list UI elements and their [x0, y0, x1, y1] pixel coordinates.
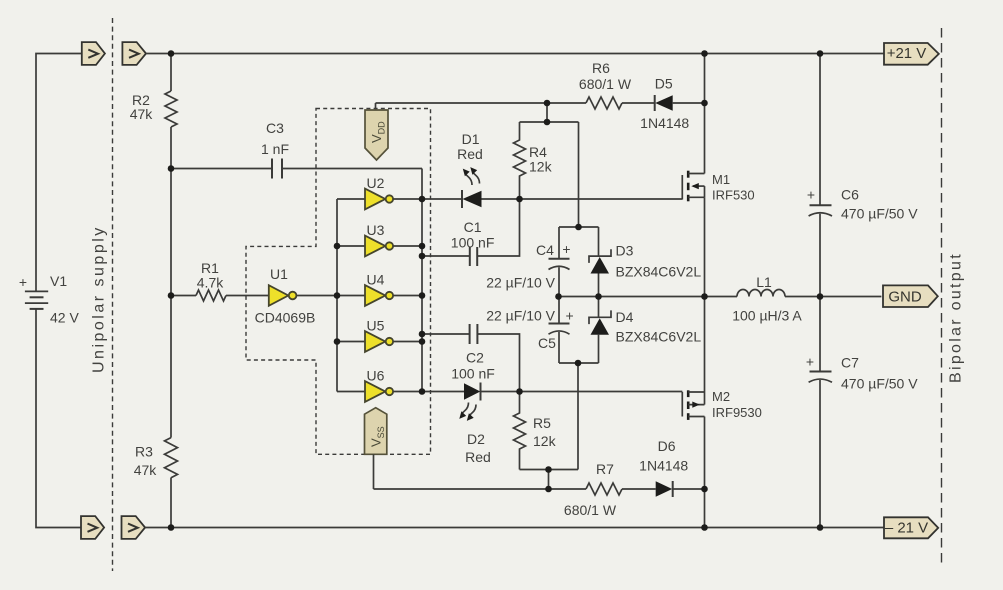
- capacitor C4 22 uF/10 V: [486, 227, 570, 297]
- wire R1 left lead from left rail: [171, 295, 196, 297]
- svg-text:12k: 12k: [529, 159, 553, 175]
- wire inverter input bus (U2-U6 inputs): [336, 199, 338, 392]
- inductor L1 100 uH/3 A: [732, 274, 802, 324]
- wire U2 output stub: [393, 198, 422, 200]
- node R4 top bar: [544, 119, 551, 126]
- svg-text:U1: U1: [270, 266, 288, 282]
- connector input negative (bottom left, unipolar side): [81, 516, 104, 539]
- capacitor C3 1 nF: [261, 120, 289, 179]
- capacitor C1 100 nF: [451, 219, 495, 266]
- inverter U2: [365, 175, 393, 209]
- svg-text:– 21 V: – 21 V: [885, 520, 928, 537]
- svg-text:+: +: [19, 274, 27, 290]
- LED D1 Red: [457, 131, 483, 208]
- svg-text:47k: 47k: [134, 462, 158, 478]
- wire R7 to D6: [622, 488, 656, 490]
- wire VDD rail stub to R4 bar: [546, 103, 548, 122]
- wire U3 output stub: [393, 245, 422, 247]
- node bottom rail / R3: [168, 524, 175, 531]
- battery V1 42 V: [19, 273, 80, 326]
- svg-text:U4: U4: [367, 272, 385, 288]
- svg-text:GND: GND: [888, 289, 922, 306]
- svg-text:C5: C5: [538, 335, 556, 351]
- inverter U4: [365, 272, 393, 306]
- wire D2 to R5 node: [481, 391, 520, 393]
- svg-text:U3: U3: [367, 222, 385, 238]
- inverter U5: [365, 318, 393, 352]
- node mid rail / C4-C5: [555, 293, 562, 300]
- wire R2 top lead: [170, 54, 172, 92]
- resistor R3 47k: [134, 438, 178, 478]
- label Bipolar output: [948, 252, 965, 383]
- svg-text:+: +: [807, 187, 815, 203]
- wire C2 right to D2 row node: [477, 334, 519, 392]
- svg-text:100 µH/3 A: 100 µH/3 A: [732, 308, 802, 324]
- svg-text:D1: D1: [462, 131, 480, 147]
- wire R5 bar stub to R7 row: [548, 470, 550, 490]
- resistor R6 680/1 W: [579, 60, 632, 109]
- node bottom rail / M2 drain: [701, 524, 708, 531]
- node bottom rail / C7: [817, 524, 824, 531]
- svg-text:+: +: [806, 354, 814, 370]
- wire C1 row from output bus: [422, 255, 470, 257]
- svg-text:22 µF/10 V: 22 µF/10 V: [486, 275, 555, 291]
- resistor R5 12k: [514, 392, 557, 470]
- wire bottom rail (-21 V net): [145, 527, 884, 529]
- node C2 row / output bus: [419, 331, 426, 338]
- node top rail / C6: [817, 50, 824, 57]
- node mid rail / M1-M2 source: [701, 293, 708, 300]
- svg-text:1N4148: 1N4148: [640, 115, 689, 131]
- svg-text:C1: C1: [464, 219, 482, 235]
- wire D1 to R4 node: [482, 198, 520, 200]
- svg-text:1 nF: 1 nF: [261, 141, 289, 157]
- node U3 input: [334, 243, 341, 250]
- node C5/D4 bottom: [575, 360, 582, 367]
- svg-text:R6: R6: [592, 60, 610, 76]
- svg-text:470 µF/50 V: 470 µF/50 V: [841, 206, 918, 222]
- wire C3 row left: [171, 168, 272, 170]
- wire left rail R1 node to R3: [170, 296, 172, 438]
- inverter U3: [365, 222, 393, 256]
- wire R7 row from VSS: [374, 488, 587, 490]
- svg-text:CD4069B: CD4069B: [255, 310, 316, 326]
- separator dashed line bipolar side: [941, 28, 943, 565]
- svg-text:U2: U2: [367, 175, 385, 191]
- wire unipolar supply positive (V1 plus to input connector): [36, 54, 82, 292]
- node U4 output: [419, 292, 426, 299]
- svg-text:IRF530: IRF530: [712, 188, 755, 203]
- svg-text:M1: M1: [712, 172, 730, 187]
- node C4/D3 top: [575, 224, 582, 231]
- wire U6 output stub: [393, 391, 422, 393]
- separator dashed line unipolar side: [112, 18, 114, 571]
- node VDD rail / D5 / M1 drain: [701, 100, 708, 107]
- connector input positive (top, circuit side): [122, 42, 146, 65]
- zener D3 BZX84C6V2L: [589, 227, 701, 297]
- node R5 bottom bar: [545, 466, 552, 473]
- connector input positive (top left, unipolar side): [82, 42, 105, 65]
- svg-text:100 nF: 100 nF: [451, 366, 495, 382]
- svg-text:+: +: [562, 241, 570, 257]
- wire U3 input stub: [337, 245, 365, 247]
- node left rail / R1: [168, 292, 175, 299]
- wire C1 right to R4 branch: [477, 199, 519, 256]
- svg-text:D6: D6: [658, 438, 676, 454]
- svg-text:BZX84C6V2L: BZX84C6V2L: [616, 264, 702, 280]
- svg-text:470 µF/50 V: 470 µF/50 V: [841, 376, 918, 392]
- svg-text:680/1 W: 680/1 W: [564, 502, 617, 518]
- inverter U1 CD4069B: [255, 266, 316, 326]
- wire VDD symbol to VDD rail: [375, 103, 377, 112]
- wire U1 output to inverter input bus: [297, 295, 366, 297]
- wire VDD rail: [376, 102, 587, 104]
- wire R5 bottom bar: [520, 469, 579, 471]
- wire R4 bar to C4/D3 top: [578, 122, 580, 227]
- resistor R2 47k: [130, 91, 177, 127]
- svg-text:C7: C7: [841, 355, 859, 371]
- wire inverter output bus: [421, 169, 423, 392]
- wire C5/D4 bottom to R5 bar: [577, 363, 579, 470]
- wire left rail C3 node to R1 node: [170, 169, 172, 296]
- wire R1 to U1 input: [226, 295, 269, 297]
- svg-text:42 V: 42 V: [50, 310, 79, 326]
- wire C3 row right to inverter output bus: [282, 168, 422, 170]
- svg-text:R5: R5: [533, 415, 551, 431]
- zener D4 BZX84C6V2L: [589, 297, 701, 364]
- svg-text:R3: R3: [135, 444, 153, 460]
- svg-text:D5: D5: [655, 76, 673, 92]
- wire mid rail virtual ground left part: [559, 296, 737, 298]
- wire C4/D3 top bar: [559, 226, 599, 228]
- power symbol VSS: [365, 408, 387, 455]
- node D2 / C2 / R5 / M2 gate: [516, 388, 523, 395]
- node U5 output: [419, 338, 426, 345]
- wire C5/D4 bottom bar: [559, 362, 599, 364]
- wire top rail +42 V net: [146, 53, 884, 55]
- wire R4 top bar: [520, 121, 579, 123]
- svg-text:Red: Red: [465, 449, 491, 465]
- wire mid rail to GND connector: [785, 296, 881, 298]
- node left rail / C3: [168, 165, 175, 172]
- node top rail / R2: [168, 50, 175, 57]
- wire D1 row from output bus: [422, 198, 462, 200]
- node U6 output / D2 row: [419, 388, 426, 395]
- svg-text:C2: C2: [466, 350, 484, 366]
- LED D2 Red: [459, 383, 491, 466]
- node U4 input: [334, 292, 341, 299]
- capacitor C7 470 uF/50 V: [806, 297, 918, 528]
- svg-text:D2: D2: [467, 431, 485, 447]
- svg-text:IRF9530: IRF9530: [712, 405, 762, 420]
- svg-text:V1: V1: [50, 273, 67, 289]
- wire VSS symbol to R7 row: [373, 454, 375, 489]
- wire R2 bottom lead to C3 node: [170, 127, 172, 169]
- wire unipolar supply negative (V1 minus to input connector): [36, 309, 82, 528]
- label Unipolar supply: [91, 225, 108, 373]
- resistor R4 12k: [514, 122, 553, 199]
- diode D6 1N4148: [639, 438, 688, 497]
- svg-text:12k: 12k: [533, 433, 557, 449]
- mosfet M1 IRF530: [682, 171, 754, 203]
- wire U6 input stub: [337, 391, 365, 393]
- svg-text:22 µF/10 V: 22 µF/10 V: [486, 308, 555, 324]
- svg-text:C4: C4: [536, 242, 554, 258]
- connector output +21 V: [884, 43, 939, 65]
- wire D5 to M1 drain vertical: [673, 102, 705, 104]
- inverter U6: [365, 368, 393, 402]
- svg-text:U5: U5: [367, 318, 385, 334]
- svg-text:R7: R7: [596, 461, 614, 477]
- wire M1 source to mid rail: [704, 197, 706, 296]
- svg-text:+: +: [566, 308, 574, 324]
- wire M2 gate row: [520, 391, 683, 393]
- wire M2 source from mid rail: [704, 297, 706, 393]
- connector input negative (bottom, circuit side): [122, 516, 146, 539]
- svg-text:L1: L1: [756, 274, 772, 290]
- svg-text:4.7k: 4.7k: [197, 275, 224, 291]
- svg-text:Bipolar output: Bipolar output: [948, 252, 965, 383]
- svg-text:100 nF: 100 nF: [451, 235, 495, 251]
- wire D6 to M2 drain vertical: [673, 488, 705, 490]
- capacitor C5 22 uF/10 V: [486, 297, 573, 364]
- svg-text:C6: C6: [841, 187, 859, 203]
- node mid rail / D3-D4: [595, 293, 602, 300]
- wire M2 drain to bottom rail: [704, 417, 706, 528]
- power symbol VDD: [365, 110, 388, 160]
- svg-text:U6: U6: [367, 368, 385, 384]
- wire U2 input stub: [337, 198, 365, 200]
- node U2 output / C3 drop: [419, 196, 426, 203]
- capacitor C2 100 nF: [451, 324, 495, 382]
- dashed outline CD4069 package (U1-U6 with VDD/VSS): [246, 109, 431, 455]
- svg-text:1N4148: 1N4148: [639, 458, 688, 474]
- svg-text:BZX84C6V2L: BZX84C6V2L: [616, 329, 702, 345]
- svg-text:680/1 W: 680/1 W: [579, 76, 632, 92]
- wire R6 to D5: [622, 102, 655, 104]
- svg-text:D3: D3: [616, 243, 634, 259]
- node R7 row / R5 stub: [545, 486, 552, 493]
- wire R3 bottom lead: [170, 478, 172, 528]
- svg-text:D4: D4: [616, 309, 634, 325]
- resistor R7 680/1 W: [564, 461, 622, 518]
- svg-text:Unipolar supply: Unipolar supply: [91, 225, 108, 373]
- wire U4 output stub: [393, 295, 422, 297]
- node VDD rail / R4 stub: [544, 100, 551, 107]
- wire M1 drain vertical from top rail: [704, 54, 706, 174]
- diode D5 1N4148: [640, 76, 689, 132]
- wire C2 row from output bus: [422, 333, 470, 335]
- svg-text:Red: Red: [457, 146, 483, 162]
- wire U5 input stub: [337, 341, 365, 343]
- svg-text:+21 V: +21 V: [887, 45, 927, 62]
- node mid rail / C6-C7: [817, 293, 824, 300]
- wire M1 gate row: [520, 198, 683, 200]
- resistor R1 4.7k: [196, 260, 226, 301]
- wire D2 row from output bus: [422, 391, 464, 393]
- connector output -21 V: [884, 517, 938, 538]
- node D1 / R4 / M1 gate: [516, 196, 523, 203]
- node top rail / M1 drain: [701, 50, 708, 57]
- node U3 output: [419, 243, 426, 250]
- svg-text:47k: 47k: [130, 106, 154, 122]
- node C1 row / output bus: [419, 253, 426, 260]
- wire U5 output stub: [393, 341, 422, 343]
- mosfet M2 IRF9530: [682, 389, 762, 420]
- svg-text:M2: M2: [712, 389, 730, 404]
- svg-text:C3: C3: [266, 120, 284, 136]
- node U5 input: [334, 338, 341, 345]
- node R7 row / D6 / M2 drain: [701, 486, 708, 493]
- connector output GND: [883, 285, 938, 307]
- capacitor C6 470 uF/50 V: [807, 54, 918, 297]
